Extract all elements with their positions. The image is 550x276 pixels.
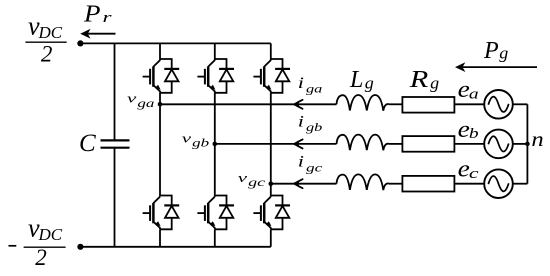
svg-text:2: 2 xyxy=(35,245,47,270)
svg-text:v: v xyxy=(238,170,248,185)
svg-text:DC: DC xyxy=(38,23,63,42)
svg-text:DC: DC xyxy=(38,225,63,244)
svg-text:C: C xyxy=(79,130,96,157)
svg-text:g: g xyxy=(365,73,374,92)
svg-text:c: c xyxy=(469,166,479,182)
svg-text:L: L xyxy=(349,67,363,93)
svg-text:P: P xyxy=(483,38,499,64)
svg-text:i: i xyxy=(298,113,304,130)
svg-text:n: n xyxy=(531,127,543,151)
svg-text:gb: gb xyxy=(192,135,209,149)
svg-text:g: g xyxy=(499,43,508,62)
svg-text:gc: gc xyxy=(248,175,266,189)
svg-text:P: P xyxy=(83,2,101,28)
svg-text:gc: gc xyxy=(306,160,323,174)
svg-text:r: r xyxy=(103,10,112,26)
svg-text:ga: ga xyxy=(137,96,154,110)
svg-text:gb: gb xyxy=(306,120,322,134)
svg-text:i: i xyxy=(298,154,304,171)
svg-text:a: a xyxy=(469,86,479,102)
svg-text:v: v xyxy=(182,130,192,145)
svg-text:i: i xyxy=(298,75,304,92)
svg-text:v: v xyxy=(127,91,137,106)
svg-text:R: R xyxy=(409,67,429,93)
svg-text:2: 2 xyxy=(41,42,53,67)
svg-text:ga: ga xyxy=(306,82,322,96)
svg-text:b: b xyxy=(469,126,479,142)
svg-text:g: g xyxy=(430,73,439,92)
